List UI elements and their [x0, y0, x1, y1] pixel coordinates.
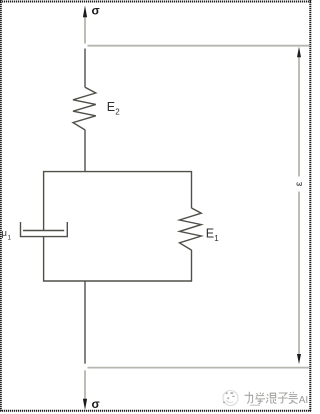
wire: box bottom	[44, 280, 192, 282]
arrowhead bottom sigma (down)	[83, 399, 87, 410]
wire: spring E2 to box top	[84, 130, 86, 172]
wire: dashpot rod from box top	[43, 171, 45, 231]
svg-text:E: E	[107, 100, 115, 114]
arrowhead strain top (up)	[297, 47, 301, 57]
watermark text: li xue hun zi ai AI	[245, 392, 298, 404]
wire: box bottom center feed down	[84, 281, 86, 364]
strain dimension line upper segment	[298, 55, 300, 177]
svg-text:2: 2	[115, 108, 120, 117]
arrowhead strain bottom (down)	[297, 354, 301, 364]
wire: top horizontal to strain line	[88, 45, 310, 47]
strain dimension line lower segment	[298, 192, 300, 357]
svg-text:E: E	[206, 226, 214, 240]
wire: box top	[44, 171, 192, 173]
spring E1	[180, 208, 202, 250]
wire: box top to spring E1	[191, 171, 193, 208]
svg-text:σ: σ	[92, 4, 100, 18]
border top dotted	[0, 1, 311, 3]
wire: junction to spring E2	[84, 49, 86, 88]
力	[245, 392, 254, 404]
wire: bottom sigma arrow stem	[84, 370, 86, 402]
dashpot piston plate	[23, 230, 64, 232]
border right dotted	[309, 0, 311, 412]
wire: bottom horizontal to strain line	[88, 367, 310, 369]
border bottom dotted	[0, 410, 311, 412]
爱	[288, 392, 297, 404]
svg-text:1: 1	[214, 234, 219, 243]
border left dotted	[0, 0, 2, 412]
svg-text:σ: σ	[92, 397, 100, 411]
watermark logo	[223, 391, 238, 406]
dashpot cup	[21, 222, 68, 237]
wire: top sigma arrow stem	[84, 12, 86, 44]
spring E2	[73, 87, 96, 130]
wire: dashpot cup to box bottom	[43, 237, 45, 282]
svg-text:μ: μ	[2, 228, 7, 239]
混	[266, 393, 276, 403]
svg-text:1: 1	[8, 235, 12, 242]
子	[278, 393, 288, 403]
svg-text:AI: AI	[299, 395, 308, 406]
arrowhead top sigma (up)	[83, 6, 87, 18]
svg-text:ε: ε	[294, 181, 305, 186]
wire: spring E1 to box bottom	[191, 250, 193, 282]
学	[255, 393, 265, 404]
